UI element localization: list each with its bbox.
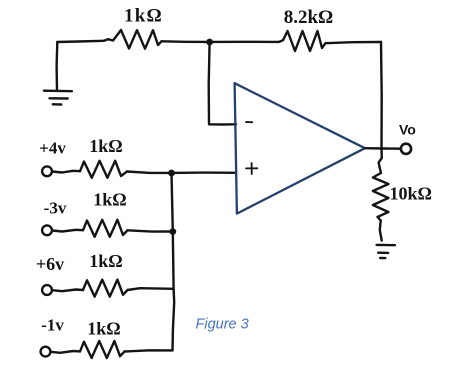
- svg-text:1kΩ: 1kΩ: [87, 319, 120, 339]
- input terminal -3v: [42, 225, 52, 235]
- svg-text:+4v: +4v: [39, 138, 66, 157]
- resistor R2 8.2k: [279, 31, 326, 51]
- svg-text:10kΩ: 10kΩ: [390, 184, 432, 204]
- op-amp plus pin label: [246, 163, 257, 174]
- svg-text:Figure 3: Figure 3: [196, 317, 249, 333]
- resistor R1 1k top: [104, 30, 162, 49]
- svg-text:1kΩ: 1kΩ: [93, 190, 126, 210]
- wire feedback vertical: [380, 42, 383, 148]
- svg-text:Vo: Vo: [399, 121, 416, 137]
- wire to 10k: [379, 148, 382, 173]
- wire: [125, 350, 173, 351]
- wire: [162, 40, 210, 43]
- resistor R7 10k: [373, 173, 389, 221]
- resistor R6 1k: [80, 341, 125, 358]
- node B junction dot: [168, 170, 175, 177]
- svg-text:+6v: +6v: [36, 254, 64, 274]
- input terminal +4v: [42, 166, 52, 176]
- node A junction dot: [206, 39, 213, 46]
- resistor R5 1k: [83, 280, 128, 297]
- wire bus vertical: [172, 173, 175, 351]
- input terminal +6v: [42, 285, 52, 295]
- wire: [52, 171, 80, 173]
- output terminal: [401, 144, 411, 154]
- wire: [128, 230, 175, 231]
- svg-text:-3v: -3v: [44, 199, 67, 218]
- ground output: [377, 244, 395, 247]
- wire: [326, 42, 382, 43]
- svg-text:1kΩ: 1kΩ: [124, 6, 163, 27]
- svg-text:1kΩ: 1kΩ: [89, 136, 122, 156]
- svg-text:-1v: -1v: [41, 315, 64, 334]
- node C junction dot: [169, 228, 176, 235]
- wire: [380, 221, 382, 241]
- ground: [44, 42, 72, 105]
- wire: [128, 288, 174, 290]
- svg-text:8.2kΩ: 8.2kΩ: [284, 7, 334, 28]
- svg-text:1kΩ: 1kΩ: [89, 251, 122, 271]
- resistor R3 1k: [80, 161, 127, 178]
- wire: [210, 41, 279, 44]
- wire: [52, 290, 83, 292]
- resistor R4 1k: [83, 220, 128, 237]
- wire row1 to opamp: [127, 172, 172, 173]
- wire noninverting input: [172, 171, 237, 174]
- input terminal -1v: [41, 347, 51, 357]
- wire inverting input: [209, 42, 236, 125]
- op-amp minus pin label: [246, 121, 252, 123]
- op-amp U1: [235, 83, 365, 213]
- wire: [57, 41, 104, 42]
- wire: [52, 230, 83, 232]
- wire output: [365, 147, 401, 150]
- wire: [51, 351, 80, 353]
